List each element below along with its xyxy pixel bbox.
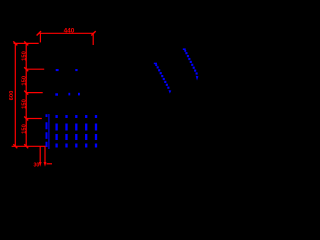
blue solid edge line	[48, 114, 50, 149]
svg-text:440: 440	[64, 27, 75, 34]
tick chain y118.5	[24, 117, 28, 121]
svg-text:150: 150	[21, 51, 27, 61]
arrow down right	[44, 162, 47, 167]
extension line right of 440	[92, 33, 94, 45]
tick chain y92.5	[24, 91, 28, 95]
tick chain y43	[24, 41, 28, 45]
blue dash row y93 c	[78, 93, 80, 96]
blue dashed column x66	[65, 115, 67, 148]
tick outer bottom	[13, 144, 17, 148]
svg-text:150: 150	[21, 124, 27, 134]
svg-text:150: 150	[21, 76, 27, 86]
dim 30: left drop line	[39, 146, 41, 163]
diagonal arrow line 1	[154, 63, 172, 94]
dimension 440 line	[39, 32, 94, 34]
blue dash row y70 a	[56, 69, 59, 71]
tick chain bottom	[24, 144, 28, 148]
tick chain y69	[24, 67, 28, 71]
svg-text:600: 600	[9, 91, 15, 101]
blue dash row y93 b	[68, 93, 70, 96]
blue dashed column x56	[55, 115, 57, 148]
blue dashed column x95.5	[95, 115, 97, 148]
vertical dimension chain line	[25, 43, 27, 146]
blue dashed column x86	[85, 115, 87, 148]
blue dashed column x46.5	[46, 114, 48, 147]
extension line y=69	[26, 68, 44, 70]
tick outer top	[13, 41, 17, 45]
tick right 440	[91, 31, 95, 35]
blue dashed column x76	[75, 115, 77, 148]
diagonal arrow line 2	[183, 48, 199, 80]
stub right of arrows	[47, 163, 53, 165]
extension line left of 440	[39, 33, 41, 42]
tick left 440	[37, 31, 41, 35]
extension line top y=43.4	[14, 42, 39, 44]
extension line y=92.5	[26, 92, 43, 94]
blue dash row y93 a	[55, 93, 58, 95]
extension line y=118.5	[26, 118, 42, 120]
dim 30: right drop line	[44, 146, 46, 163]
vertical dimension line 600 (outer)	[14, 43, 16, 146]
svg-text:150: 150	[21, 99, 27, 109]
blue dash row y70 b	[75, 69, 77, 71]
extension line bottom y=146.3	[12, 145, 48, 147]
arrow down left	[39, 162, 42, 167]
svg-text:30: 30	[34, 163, 40, 169]
